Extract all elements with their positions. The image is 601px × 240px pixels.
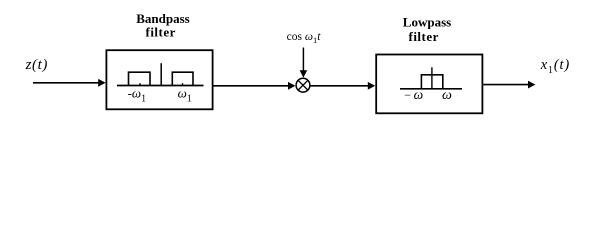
wire: bandpass output to multiplier <box>214 82 296 90</box>
lowpass response: passband pulse from -w to w <box>421 75 442 89</box>
svg-text:filter: filter <box>408 29 438 44</box>
svg-text:ω1: ω1 <box>178 86 192 105</box>
svg-text:Lowpass: Lowpass <box>403 14 451 29</box>
bandpass response: right passband pulse at w1 <box>172 72 193 85</box>
svg-text:ω: ω <box>442 88 452 103</box>
wire: multiplier output to lowpass filter <box>310 82 375 90</box>
svg-text:x1(t): x1(t) <box>540 57 570 76</box>
bandpass response: tick at -w1 <box>139 83 141 85</box>
wire: carrier down-arrow into multiplier <box>300 48 308 78</box>
svg-text:-ω1: -ω1 <box>128 86 147 105</box>
lowpass response: frequency axis <box>400 88 462 90</box>
label: Bandpass filter title <box>136 11 189 40</box>
lowpass response: vertical axis at origin <box>431 67 433 89</box>
bandpass response: tick at w1 <box>182 83 184 85</box>
svg-text:−ω: −ω <box>404 87 423 102</box>
wire: input arrow into bandpass filter <box>33 79 106 87</box>
block U2: lowpass filter box <box>376 55 482 114</box>
wire: output arrow from lowpass filter <box>483 81 535 89</box>
bandpass response: frequency axis <box>117 85 204 87</box>
svg-text:cos ω1t: cos ω1t <box>287 31 322 45</box>
block U1: bandpass filter box <box>106 50 212 109</box>
svg-text:filter: filter <box>145 25 175 40</box>
multiplier M1: circle with X <box>296 78 310 92</box>
bandpass response: vertical axis at origin <box>160 63 162 85</box>
svg-text:z(t): z(t) <box>25 57 48 73</box>
label: Lowpass filter title <box>403 14 451 43</box>
bandpass response: left passband pulse at -w1 <box>129 72 151 85</box>
